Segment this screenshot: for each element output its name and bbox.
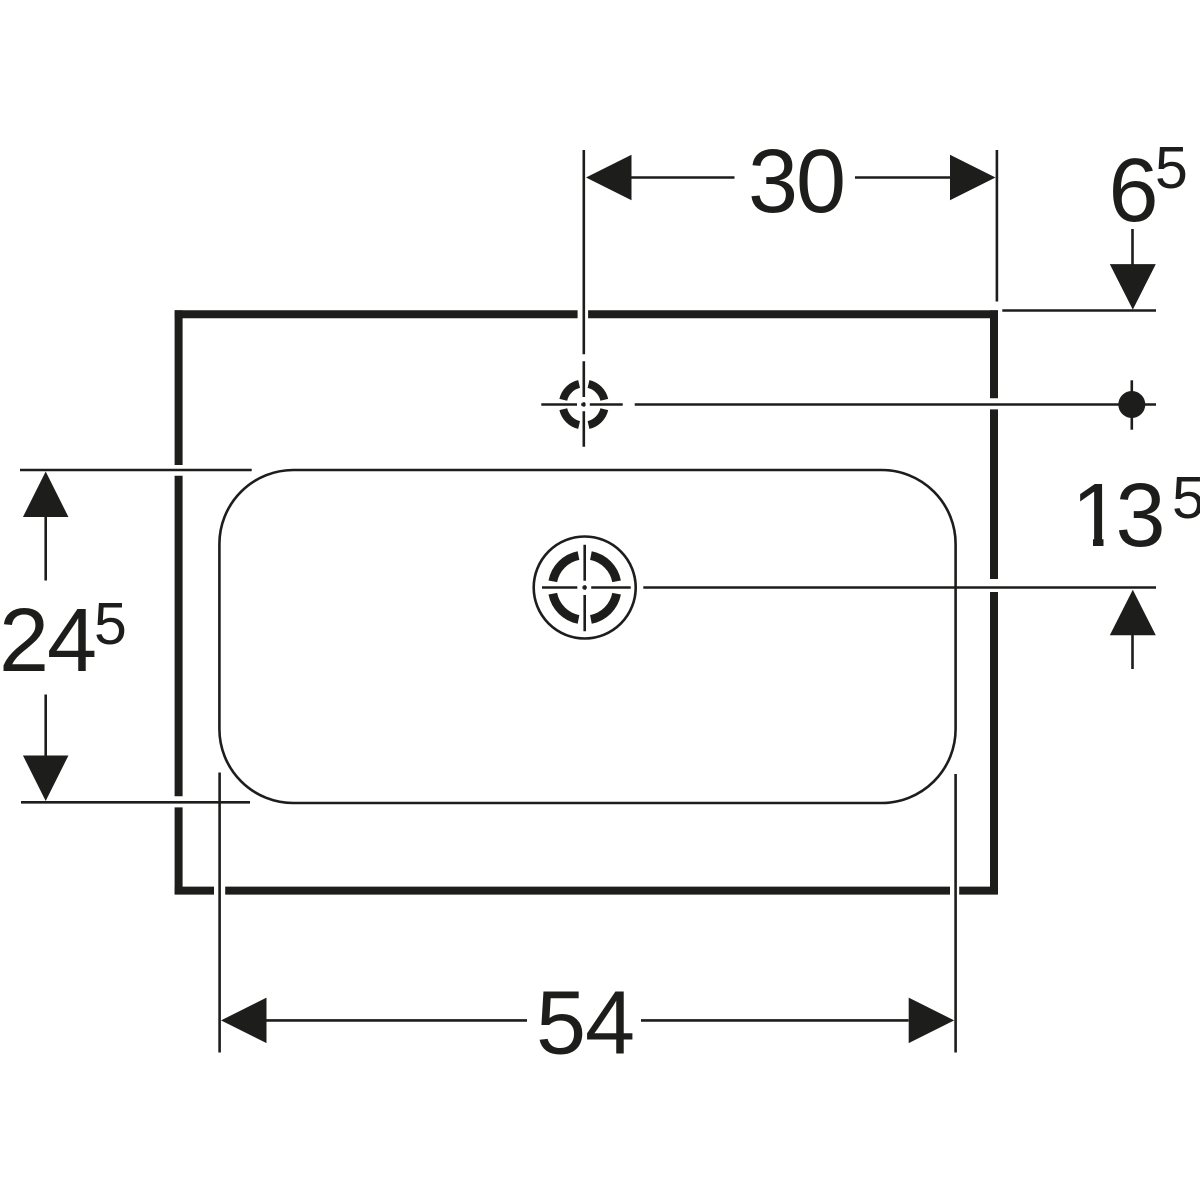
svg-text:0: 0 xyxy=(796,132,846,232)
svg-text:5: 5 xyxy=(1172,465,1200,531)
svg-text:5: 5 xyxy=(1155,135,1188,201)
svg-text:3: 3 xyxy=(748,132,798,232)
svg-text:6: 6 xyxy=(1109,141,1159,241)
svg-text:1: 1 xyxy=(1072,466,1122,566)
svg-text:2: 2 xyxy=(0,591,49,691)
svg-text:3: 3 xyxy=(1116,466,1166,566)
svg-text:5: 5 xyxy=(94,591,127,657)
svg-text:4: 4 xyxy=(47,591,97,691)
svg-text:4: 4 xyxy=(585,973,635,1073)
svg-text:5: 5 xyxy=(536,973,586,1073)
